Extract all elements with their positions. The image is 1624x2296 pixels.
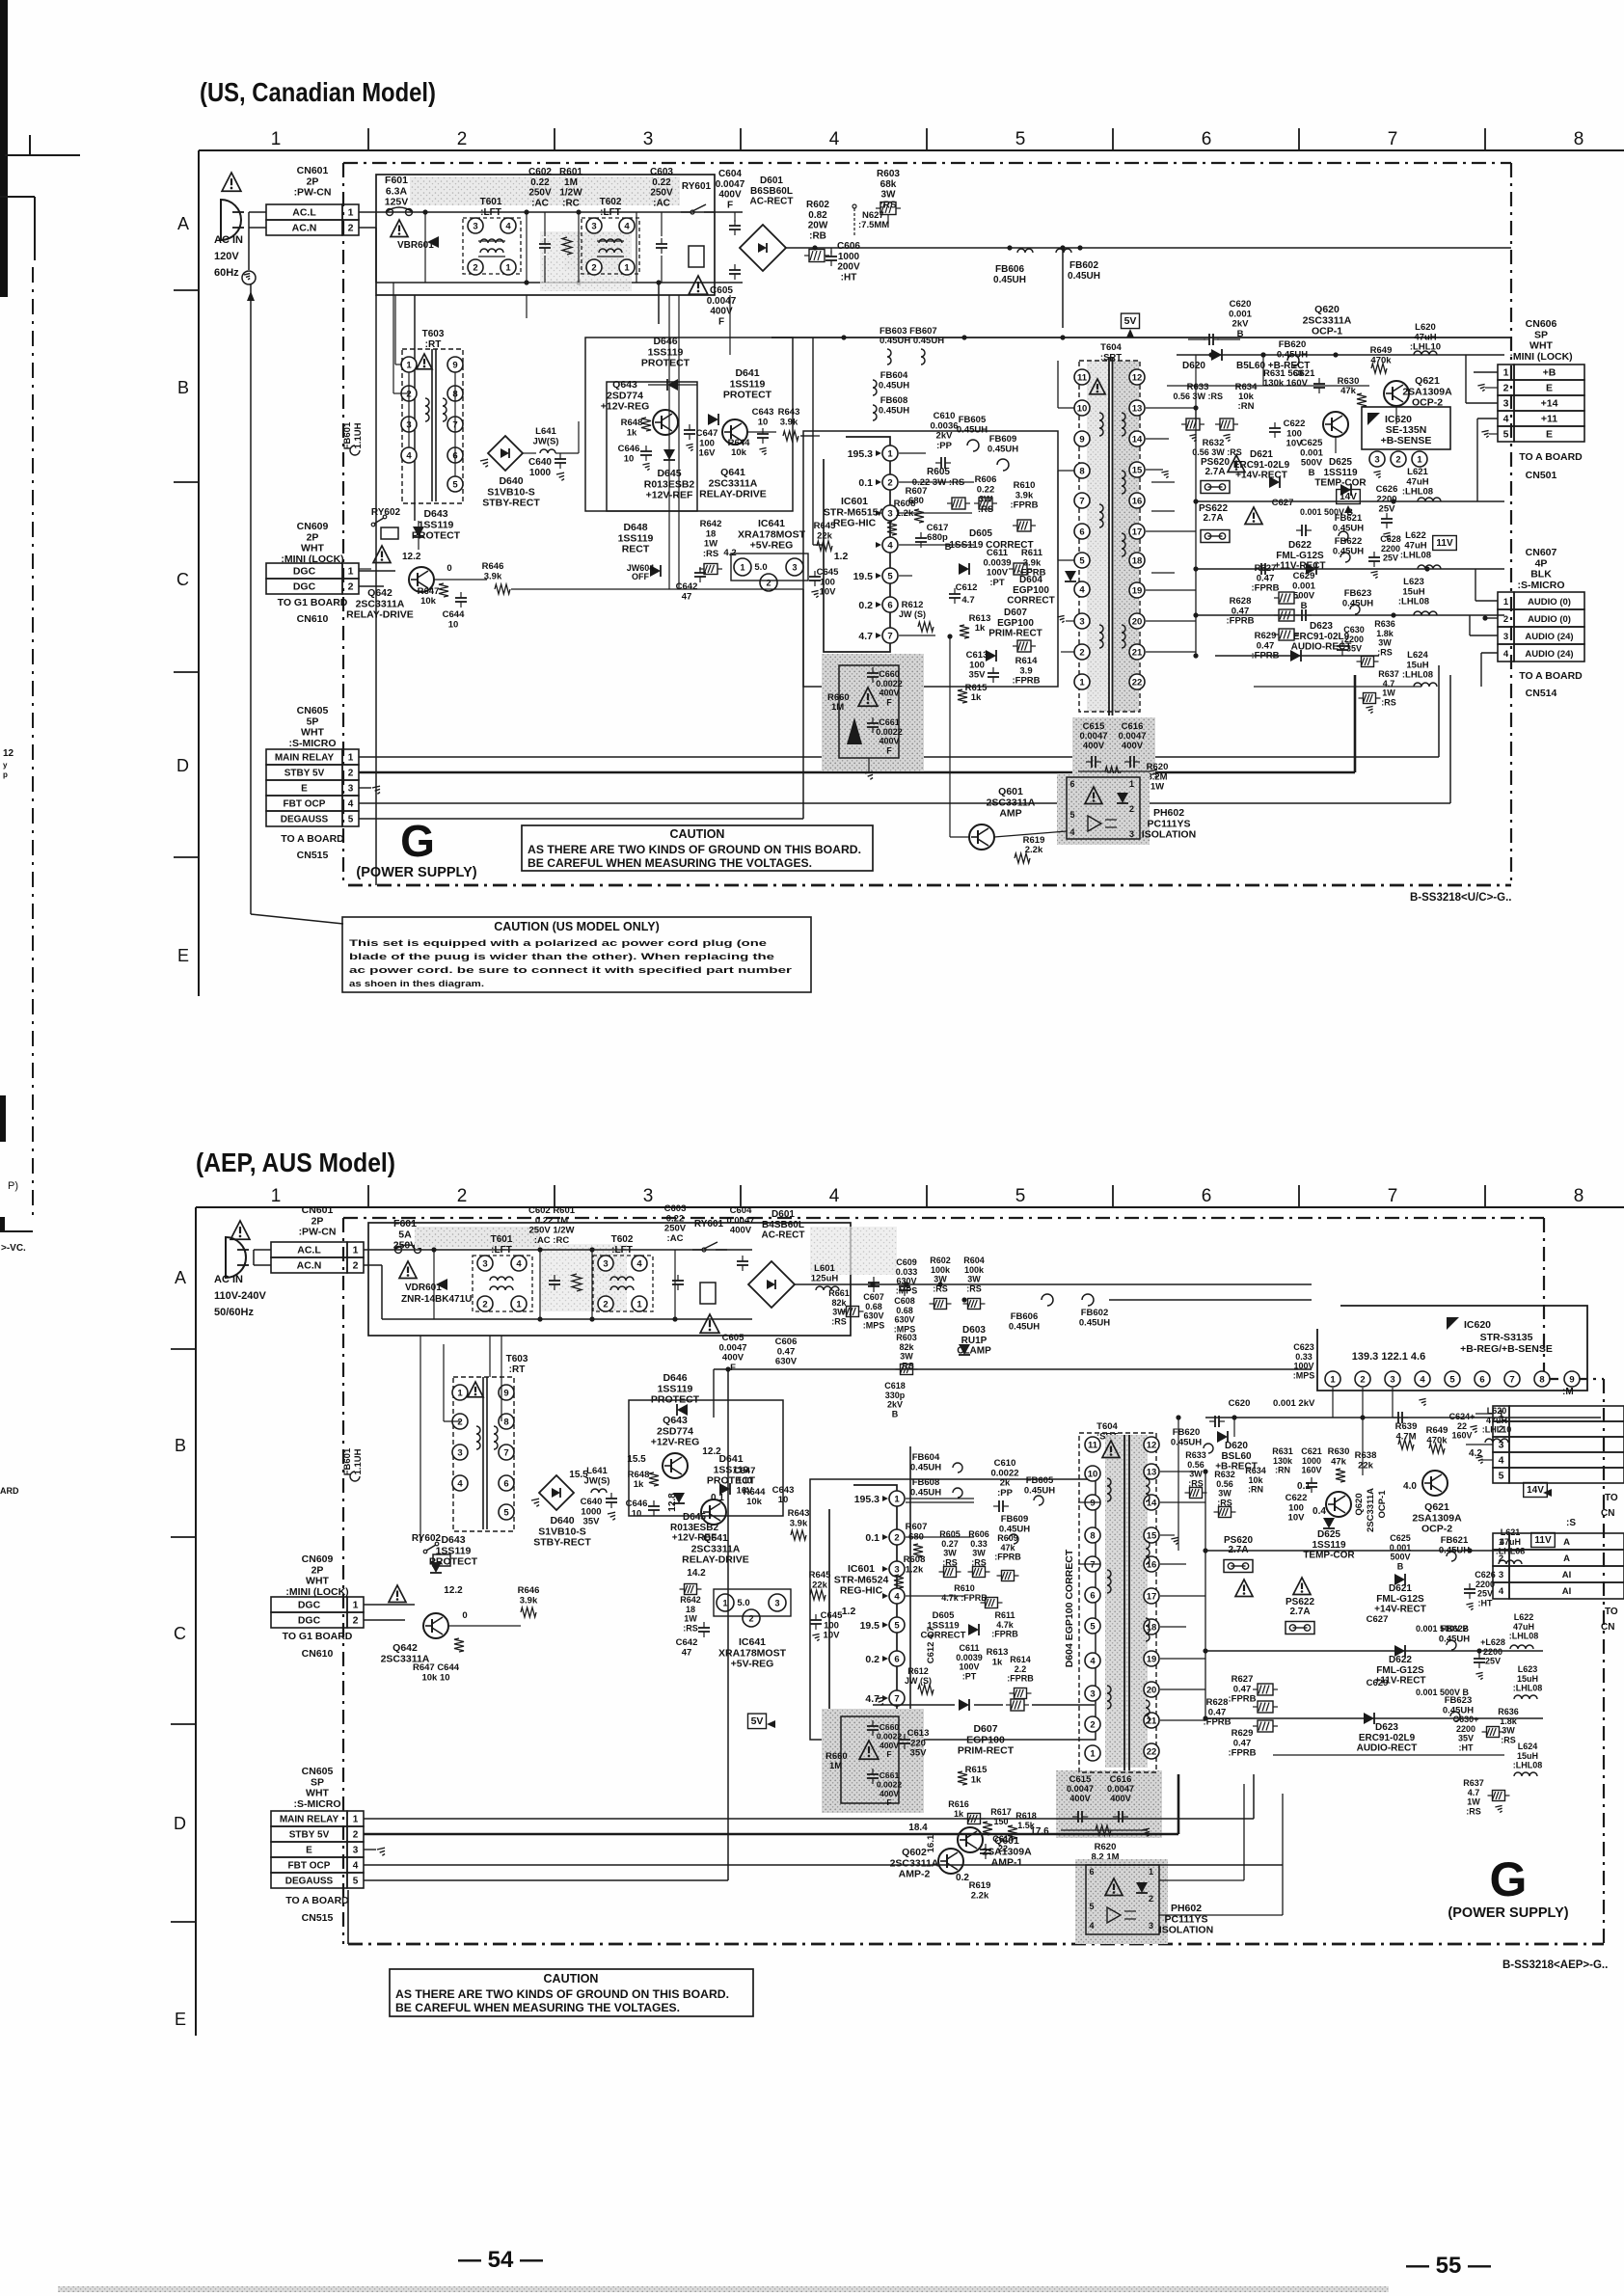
svg-text:3: 3 — [643, 1186, 654, 1206]
wire e aep — [364, 1849, 376, 1850]
svg-text:B-SS3218<AEP>-G..: B-SS3218<AEP>-G.. — [1502, 1959, 1608, 1971]
svg-text:AC.N: AC.N — [292, 223, 317, 234]
svg-text:L622: L622 — [1514, 1612, 1534, 1622]
svg-text:2: 2 — [348, 769, 354, 779]
svg-text::LHL08: :LHL08 — [1513, 1684, 1543, 1693]
svg-text:1000: 1000 — [529, 468, 552, 478]
svg-text:C611: C611 — [959, 1643, 979, 1653]
svg-text:+B-REG/+B-SENSE: +B-REG/+B-SENSE — [1460, 1343, 1553, 1355]
svg-text:+12V-REG: +12V-REG — [601, 401, 650, 413]
wire 11v aep — [1205, 1650, 1543, 1652]
svg-text:160V: 160V — [1451, 1431, 1472, 1441]
svg-text:0.45UH 0.45UH: 0.45UH 0.45UH — [880, 336, 944, 346]
svg-text:D640: D640 — [499, 475, 523, 487]
svg-text:R617: R617 — [990, 1807, 1012, 1817]
svg-text:470k: 470k — [1370, 355, 1392, 365]
svg-text:3W: 3W — [1189, 1470, 1203, 1479]
warning mark — [468, 1382, 483, 1397]
svg-text:D620: D620 — [1182, 361, 1205, 371]
svg-text:19: 19 — [1147, 1654, 1157, 1664]
svg-text::RS: :RS — [1466, 1806, 1481, 1816]
svg-text::LFT: :LFT — [600, 207, 621, 218]
svg-text:1/2W: 1/2W — [559, 188, 582, 199]
svg-text:Q643: Q643 — [663, 1415, 688, 1426]
svg-text:R636: R636 — [1374, 619, 1395, 629]
svg-text:C618: C618 — [884, 1381, 906, 1391]
svg-text:2: 2 — [457, 129, 468, 149]
svg-text::FPRB: :FPRB — [1228, 1694, 1256, 1705]
svg-text:AC.L: AC.L — [292, 207, 316, 219]
svg-text:5: 5 — [1499, 1471, 1504, 1482]
svg-text::LHL08: :LHL08 — [1509, 1632, 1539, 1641]
svg-text:2SC3311A: 2SC3311A — [1366, 1488, 1376, 1532]
svg-text:C627: C627 — [1367, 1614, 1389, 1625]
caution box — [522, 825, 873, 871]
wire ac aep — [254, 1249, 271, 1251]
svg-text:7: 7 — [894, 1693, 899, 1704]
svg-text:2SD774: 2SD774 — [657, 1425, 693, 1437]
svg-text::FPRB: :FPRB — [1012, 676, 1040, 687]
svg-text:E: E — [177, 946, 189, 965]
svg-text:A: A — [1563, 1553, 1570, 1564]
svg-text:0.45UH: 0.45UH — [988, 444, 1018, 454]
svg-text:1: 1 — [636, 1299, 642, 1310]
svg-text:C605: C605 — [710, 285, 733, 296]
svg-text:10: 10 — [448, 619, 459, 630]
svg-text:100V: 100V — [1293, 1362, 1313, 1371]
svg-text:IC641: IC641 — [758, 518, 785, 529]
svg-text::AC: :AC — [653, 198, 670, 208]
svg-text:60Hz: 60Hz — [214, 267, 239, 279]
svg-text:+B-SENSE: +B-SENSE — [1381, 435, 1432, 446]
svg-text:3W: 3W — [1218, 1489, 1232, 1499]
svg-text:15: 15 — [1147, 1530, 1157, 1541]
svg-text:13: 13 — [1147, 1467, 1157, 1477]
caution box AEP — [390, 1969, 753, 2016]
svg-text:CN: CN — [1601, 1508, 1614, 1519]
wire AC line top — [359, 211, 743, 213]
svg-text:4: 4 — [1069, 827, 1074, 837]
warning mark — [230, 1221, 250, 1239]
svg-text:1M: 1M — [564, 177, 578, 188]
svg-text:2200: 2200 — [1381, 544, 1400, 554]
svg-text:1: 1 — [353, 1245, 359, 1256]
svg-text:5.0: 5.0 — [737, 1598, 749, 1608]
svg-text:JW(S): JW(S) — [533, 436, 559, 446]
svg-text:D640: D640 — [550, 1515, 574, 1526]
svg-text:160V: 160V — [1301, 1466, 1321, 1475]
svg-text:CN515: CN515 — [297, 850, 329, 861]
svg-text:2: 2 — [457, 1186, 468, 1206]
svg-text::MPS: :MPS — [896, 1285, 918, 1295]
svg-text:14: 14 — [1147, 1498, 1157, 1508]
svg-text:4: 4 — [1503, 649, 1509, 660]
svg-text:1: 1 — [894, 1494, 900, 1504]
svg-text:FBT OCP: FBT OCP — [284, 799, 326, 810]
svg-text:1: 1 — [1499, 1409, 1504, 1420]
svg-text:B: B — [1397, 1561, 1404, 1571]
svg-text:630V: 630V — [894, 1315, 914, 1325]
svg-text:0.0047: 0.0047 — [716, 179, 745, 190]
svg-text::RC: :RC — [562, 198, 580, 208]
svg-text:R602: R602 — [806, 200, 829, 210]
svg-text:AC.N: AC.N — [297, 1260, 322, 1272]
svg-text::FPRB: :FPRB — [1226, 616, 1254, 627]
wire filter verticals aep — [539, 1250, 541, 1319]
wire ic601 pins — [899, 452, 926, 454]
bottom scan band — [58, 2286, 1389, 2292]
svg-text:6: 6 — [887, 600, 892, 610]
svg-text:130k 160V: 130k 160V — [1263, 378, 1309, 389]
svg-text:10k: 10k — [1248, 1475, 1263, 1485]
svg-text:195.3: 195.3 — [848, 448, 873, 460]
svg-text:D622: D622 — [1288, 540, 1312, 551]
svg-text::LHL08: :LHL08 — [1400, 551, 1431, 561]
svg-text:500V: 500V — [1390, 1553, 1410, 1562]
svg-text:ERC91-02L9: ERC91-02L9 — [1359, 1733, 1416, 1743]
svg-text:4: 4 — [505, 221, 511, 231]
svg-text:D: D — [176, 756, 189, 775]
svg-text:0.4: 0.4 — [1313, 1506, 1326, 1517]
svg-text::RN: :RN — [1248, 1485, 1263, 1495]
svg-text:35V: 35V — [1346, 644, 1362, 654]
svg-text:1SS119: 1SS119 — [1323, 468, 1357, 478]
svg-text:3W: 3W — [881, 190, 897, 201]
svg-text:PROTECT: PROTECT — [723, 390, 772, 401]
svg-text:E: E — [175, 2010, 186, 2029]
svg-text:47: 47 — [682, 591, 692, 602]
svg-text::FPRB: :FPRB — [1228, 1748, 1256, 1759]
wire ac to cn601 — [249, 211, 266, 213]
svg-text:3: 3 — [1499, 1440, 1504, 1451]
wire ground bus vertical — [250, 284, 252, 914]
svg-text:400V: 400V — [1122, 741, 1144, 751]
svg-text:400V: 400V — [879, 737, 899, 746]
svg-text:2: 2 — [482, 1299, 487, 1310]
svg-text:C660: C660 — [879, 669, 900, 679]
svg-text:5A: 5A — [398, 1229, 412, 1240]
svg-text:4.7: 4.7 — [1383, 679, 1395, 689]
svg-text:2: 2 — [1499, 1424, 1504, 1436]
svg-text:F601: F601 — [385, 175, 408, 186]
svg-text:T601: T601 — [480, 197, 502, 207]
svg-text:REG-HIC: REG-HIC — [833, 518, 877, 529]
svg-text:15uH: 15uH — [1517, 1674, 1538, 1684]
svg-text:0.0047: 0.0047 — [1067, 1784, 1094, 1794]
svg-text:0.45UH: 0.45UH — [1024, 1485, 1055, 1496]
svg-text:STBY-RECT: STBY-RECT — [533, 1537, 591, 1549]
svg-text::PT: :PT — [989, 578, 1005, 588]
svg-text:7: 7 — [503, 1447, 508, 1458]
wire main relay aep — [364, 1818, 1254, 1820]
svg-text:+12V-REF: +12V-REF — [646, 490, 693, 501]
svg-text:S1VB10-S: S1VB10-S — [538, 1526, 586, 1537]
svg-text:D621: D621 — [1389, 1583, 1412, 1594]
svg-text:15: 15 — [1132, 465, 1143, 475]
svg-text:0.56 3W :RS: 0.56 3W :RS — [1173, 392, 1223, 401]
svg-text::PT: :PT — [962, 1671, 977, 1681]
svg-text:L621: L621 — [1501, 1527, 1521, 1537]
svg-text:47k: 47k — [1340, 386, 1357, 396]
svg-text:R013ESB2: R013ESB2 — [644, 478, 695, 490]
IC IC620 — [1362, 407, 1450, 449]
svg-text:3W: 3W — [900, 1352, 913, 1362]
svg-text::AC: :AC — [531, 198, 549, 208]
svg-text:1SS119: 1SS119 — [618, 532, 654, 544]
svg-text:19.5: 19.5 — [853, 571, 874, 582]
svg-text:0.22: 0.22 — [652, 177, 671, 188]
svg-text:B: B — [177, 378, 189, 397]
svg-text:3: 3 — [348, 784, 354, 795]
svg-text:10: 10 — [1077, 403, 1088, 414]
svg-text:+5V-REG: +5V-REG — [750, 540, 794, 552]
svg-text:DGC: DGC — [298, 1615, 321, 1627]
wire ph602 aep — [1159, 1879, 1244, 1881]
svg-text:0: 0 — [462, 1610, 467, 1621]
svg-text:TO: TO — [1605, 1493, 1618, 1503]
svg-text:400V: 400V — [879, 689, 899, 698]
svg-text:10k 10: 10k 10 — [421, 1672, 449, 1683]
svg-text:AI: AI — [1562, 1570, 1572, 1580]
svg-text:D604: D604 — [1019, 575, 1042, 585]
svg-text:82k: 82k — [899, 1342, 914, 1352]
svg-text:5: 5 — [1090, 1621, 1096, 1632]
svg-text:100k: 100k — [931, 1265, 951, 1275]
svg-text:E: E — [306, 1846, 312, 1856]
svg-text:Q601: Q601 — [994, 1835, 1019, 1847]
svg-text:0.56: 0.56 — [1216, 1479, 1233, 1489]
svg-text:G: G — [1490, 1852, 1528, 1906]
svg-text:100V: 100V — [959, 1662, 979, 1672]
wire t604 right stubs — [1151, 481, 1175, 483]
svg-text:5: 5 — [1449, 1374, 1455, 1385]
svg-text:0.45UH: 0.45UH — [1439, 1634, 1470, 1644]
svg-text:F: F — [886, 1797, 891, 1807]
svg-text:STR-S3135: STR-S3135 — [1480, 1332, 1533, 1343]
svg-text:1SS119: 1SS119 — [419, 519, 454, 530]
svg-text:0.27: 0.27 — [941, 1539, 959, 1549]
svg-text:1SS119: 1SS119 — [436, 1545, 472, 1556]
svg-text:2: 2 — [591, 262, 596, 273]
svg-text:3: 3 — [1503, 398, 1509, 410]
AC plug — [221, 200, 241, 240]
svg-text::RT: :RT — [425, 339, 442, 350]
svg-text:BE CAREFUL WHEN MEASURING THE: BE CAREFUL WHEN MEASURING THE VOLTAGES. — [395, 2001, 680, 2014]
svg-text:4.7: 4.7 — [1468, 1788, 1480, 1797]
wire audio aep — [1205, 1717, 1543, 1719]
caution box us model — [342, 917, 811, 992]
svg-text:2SC3311A: 2SC3311A — [356, 598, 405, 609]
svg-text:1M: 1M — [829, 1761, 842, 1771]
svg-text:3: 3 — [1129, 829, 1134, 839]
svg-text:6: 6 — [1479, 1374, 1484, 1385]
svg-text:5: 5 — [887, 571, 893, 581]
svg-text:DEGAUSS: DEGAUSS — [285, 1877, 334, 1887]
svg-text:3: 3 — [603, 1258, 608, 1269]
svg-text:10: 10 — [624, 453, 635, 464]
svg-text:130k: 130k — [1273, 1456, 1293, 1466]
warning mark — [399, 1261, 417, 1279]
svg-text:4: 4 — [1420, 1374, 1425, 1385]
svg-text:120V: 120V — [214, 251, 239, 262]
svg-text:11: 11 — [1077, 372, 1088, 383]
svg-text:FB601: FB601 — [342, 1447, 353, 1475]
svg-text:9: 9 — [1079, 434, 1084, 445]
svg-text:DGC: DGC — [298, 1600, 321, 1611]
svg-text:20W: 20W — [808, 221, 828, 231]
svg-text:18.4: 18.4 — [908, 1823, 928, 1833]
svg-text:0.22: 0.22 — [530, 177, 550, 188]
svg-text:TO A BOARD: TO A BOARD — [1519, 670, 1583, 682]
svg-text:TO A BOARD: TO A BOARD — [285, 1895, 349, 1906]
svg-text:2: 2 — [353, 1615, 359, 1627]
svg-text:AC-RECT: AC-RECT — [750, 197, 794, 207]
box ic601 outer — [803, 431, 1058, 687]
svg-text:FML-G12S: FML-G12S — [1376, 1594, 1424, 1605]
svg-text:AC IN: AC IN — [214, 1274, 243, 1285]
svg-text:3: 3 — [1079, 616, 1084, 627]
wire main hv aep — [1205, 1417, 1601, 1418]
svg-text:2P: 2P — [307, 176, 319, 187]
svg-text:9: 9 — [452, 360, 457, 370]
svg-text:2SA1309A: 2SA1309A — [982, 1846, 1032, 1857]
svg-text:1: 1 — [406, 360, 412, 370]
warning mark — [1102, 1441, 1120, 1458]
svg-text:CAUTION (US MODEL ONLY): CAUTION (US MODEL ONLY) — [494, 920, 660, 933]
wire t604 right — [1146, 407, 1196, 409]
svg-text:1k: 1k — [954, 1809, 964, 1819]
svg-text:19: 19 — [1132, 585, 1143, 596]
svg-text:IC601: IC601 — [841, 496, 868, 507]
svg-text:400V: 400V — [1083, 741, 1105, 751]
svg-text:OCP-1: OCP-1 — [1312, 326, 1342, 338]
svg-text:WHT: WHT — [301, 543, 324, 554]
svg-text:T603: T603 — [422, 329, 445, 339]
svg-text:2.7A: 2.7A — [1204, 467, 1225, 477]
svg-text:3W: 3W — [943, 1549, 957, 1558]
svg-text:Q641: Q641 — [703, 1532, 728, 1544]
svg-text::MPS: :MPS — [863, 1320, 885, 1330]
svg-text:1: 1 — [505, 262, 511, 273]
warning mark — [391, 220, 408, 237]
filter box — [376, 175, 715, 295]
svg-text:0.1: 0.1 — [865, 1532, 880, 1544]
svg-text::RS: :RS — [703, 549, 718, 559]
svg-text::RS: :RS — [933, 1283, 948, 1293]
wire below filter — [394, 295, 396, 365]
svg-text::FPRB: :FPRB — [1007, 1674, 1034, 1684]
svg-text:R633: R633 — [1185, 1450, 1206, 1460]
svg-text:D643: D643 — [423, 508, 447, 520]
svg-text:AMP: AMP — [999, 808, 1021, 820]
wire below filter aep — [489, 1336, 491, 1377]
svg-text:10: 10 — [758, 417, 769, 427]
svg-text:82k: 82k — [831, 1298, 847, 1308]
svg-text:7: 7 — [887, 631, 892, 641]
svg-text:125V: 125V — [385, 197, 409, 208]
svg-text:(AEP, AUS Model): (AEP, AUS Model) — [196, 1148, 395, 1177]
svg-text:0.45UH: 0.45UH — [1439, 1545, 1470, 1555]
svg-text:3: 3 — [1390, 1374, 1394, 1385]
svg-text:12.2: 12.2 — [444, 1585, 463, 1596]
wire fb aep — [906, 1501, 974, 1503]
svg-text::M: :M — [1562, 1387, 1574, 1397]
wire fbt ocp — [359, 802, 1450, 804]
svg-text:3.9k: 3.9k — [780, 417, 798, 427]
svg-text:1.2: 1.2 — [842, 1606, 856, 1617]
svg-text::S-MICRO: :S-MICRO — [294, 1798, 341, 1810]
svg-text:1W: 1W — [1467, 1797, 1480, 1807]
svg-text:4: 4 — [829, 1186, 840, 1206]
svg-text::LHL10: :LHL10 — [1482, 1425, 1512, 1435]
svg-text:D622: D622 — [1389, 1655, 1412, 1665]
warning mark — [1228, 455, 1245, 473]
svg-text:This set is equipped with a po: This set is equipped with a polarized ac… — [349, 938, 767, 948]
svg-text:35V: 35V — [969, 670, 987, 681]
zener D645 — [663, 449, 675, 460]
svg-text:4: 4 — [829, 129, 840, 149]
block R660 — [822, 654, 924, 771]
svg-text:1W: 1W — [1382, 689, 1395, 698]
svg-text:5P: 5P — [307, 716, 319, 727]
box ic601 outer AEP — [810, 1479, 1096, 1740]
svg-text::LHL08: :LHL08 — [1402, 670, 1433, 681]
svg-text:25V: 25V — [1477, 1589, 1493, 1599]
diode D623 AEP — [1364, 1713, 1374, 1724]
svg-text:2.2k: 2.2k — [1025, 845, 1043, 855]
svg-text:R611: R611 — [994, 1610, 1015, 1620]
wire main relay — [359, 756, 1439, 758]
svg-text:+14: +14 — [1541, 398, 1558, 410]
svg-text:0.033: 0.033 — [896, 1267, 918, 1277]
svg-text:1W: 1W — [1150, 782, 1164, 793]
wire hv bus — [1177, 354, 1504, 356]
svg-text:SP: SP — [311, 1776, 324, 1788]
svg-text:2: 2 — [894, 1532, 899, 1543]
svg-text:B: B — [892, 1409, 899, 1418]
svg-text:8: 8 — [1079, 466, 1084, 476]
svg-text:2P: 2P — [311, 1564, 324, 1576]
wire t604 left — [1058, 407, 1074, 409]
svg-text:4: 4 — [457, 1478, 463, 1489]
svg-text:0.68: 0.68 — [865, 1302, 882, 1311]
svg-text:25V: 25V — [1383, 554, 1398, 563]
svg-text:MAIN RELAY: MAIN RELAY — [275, 753, 335, 764]
svg-text:C612: C612 — [956, 582, 978, 593]
wire AC line bottom — [359, 227, 376, 229]
warning mark — [417, 354, 432, 369]
diode D625 AEP — [1323, 1518, 1335, 1528]
svg-text:0.56: 0.56 — [1187, 1460, 1204, 1470]
svg-text:R642: R642 — [680, 1595, 701, 1605]
svg-text:RY601: RY601 — [694, 1219, 724, 1229]
warning mark — [689, 276, 708, 294]
svg-text:14: 14 — [1132, 434, 1143, 445]
svg-text:R604: R604 — [963, 1256, 985, 1265]
svg-text:2200: 2200 — [1483, 1647, 1502, 1657]
board outline G AEP — [343, 1217, 1544, 1219]
svg-text:R605: R605 — [927, 467, 950, 477]
svg-text::AC: :AC — [667, 1233, 684, 1244]
svg-text:R636: R636 — [1498, 1707, 1519, 1716]
svg-text:2SD774: 2SD774 — [607, 390, 643, 401]
svg-text:10: 10 — [632, 1508, 642, 1519]
svg-text:(POWER SUPPLY): (POWER SUPPLY) — [356, 865, 476, 880]
svg-text:5V: 5V — [751, 1715, 764, 1727]
svg-text:3: 3 — [1499, 1570, 1503, 1580]
svg-text:(US, Canadian Model): (US, Canadian Model) — [200, 77, 436, 107]
svg-text:+B: +B — [1543, 367, 1556, 379]
